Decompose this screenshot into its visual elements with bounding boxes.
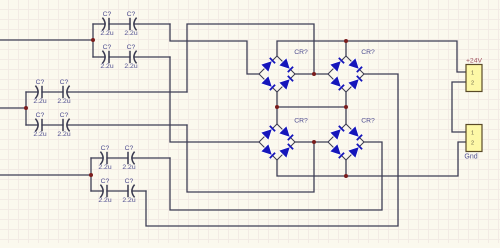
svg-text:C?: C? xyxy=(127,44,136,51)
svg-text:C?: C? xyxy=(125,178,134,185)
svg-text:2.2u: 2.2u xyxy=(98,164,111,171)
svg-text:C?: C? xyxy=(103,11,112,18)
svg-text:2.2u: 2.2u xyxy=(124,30,137,37)
svg-text:C?: C? xyxy=(125,145,134,152)
svg-text:2.2u: 2.2u xyxy=(33,98,46,105)
svg-text:2.2u: 2.2u xyxy=(124,63,137,70)
svg-text:C?: C? xyxy=(127,11,136,18)
svg-text:CR?: CR? xyxy=(361,118,375,125)
svg-text:CR?: CR? xyxy=(294,118,308,125)
svg-text:Gnd: Gnd xyxy=(464,154,477,161)
svg-text:2: 2 xyxy=(471,80,474,86)
svg-text:2: 2 xyxy=(471,140,474,146)
svg-text:2.2u: 2.2u xyxy=(122,197,135,204)
svg-text:1: 1 xyxy=(471,130,474,136)
svg-text:C?: C? xyxy=(36,79,45,86)
svg-text:2.2u: 2.2u xyxy=(100,30,113,37)
svg-text:2.2u: 2.2u xyxy=(100,63,113,70)
svg-text:1: 1 xyxy=(471,70,474,76)
svg-text:C?: C? xyxy=(36,112,45,119)
svg-text:C?: C? xyxy=(101,178,110,185)
svg-text:C?: C? xyxy=(60,79,69,86)
svg-text:2.2u: 2.2u xyxy=(57,98,70,105)
svg-text:C?: C? xyxy=(60,112,69,119)
svg-text:+24V: +24V xyxy=(466,58,483,65)
svg-text:2.2u: 2.2u xyxy=(33,131,46,138)
svg-text:CR?: CR? xyxy=(294,49,308,56)
svg-text:2.2u: 2.2u xyxy=(122,164,135,171)
svg-text:C?: C? xyxy=(103,44,112,51)
svg-text:2.2u: 2.2u xyxy=(98,197,111,204)
svg-text:CR?: CR? xyxy=(361,49,375,56)
svg-text:C?: C? xyxy=(101,145,110,152)
svg-text:2.2u: 2.2u xyxy=(57,131,70,138)
